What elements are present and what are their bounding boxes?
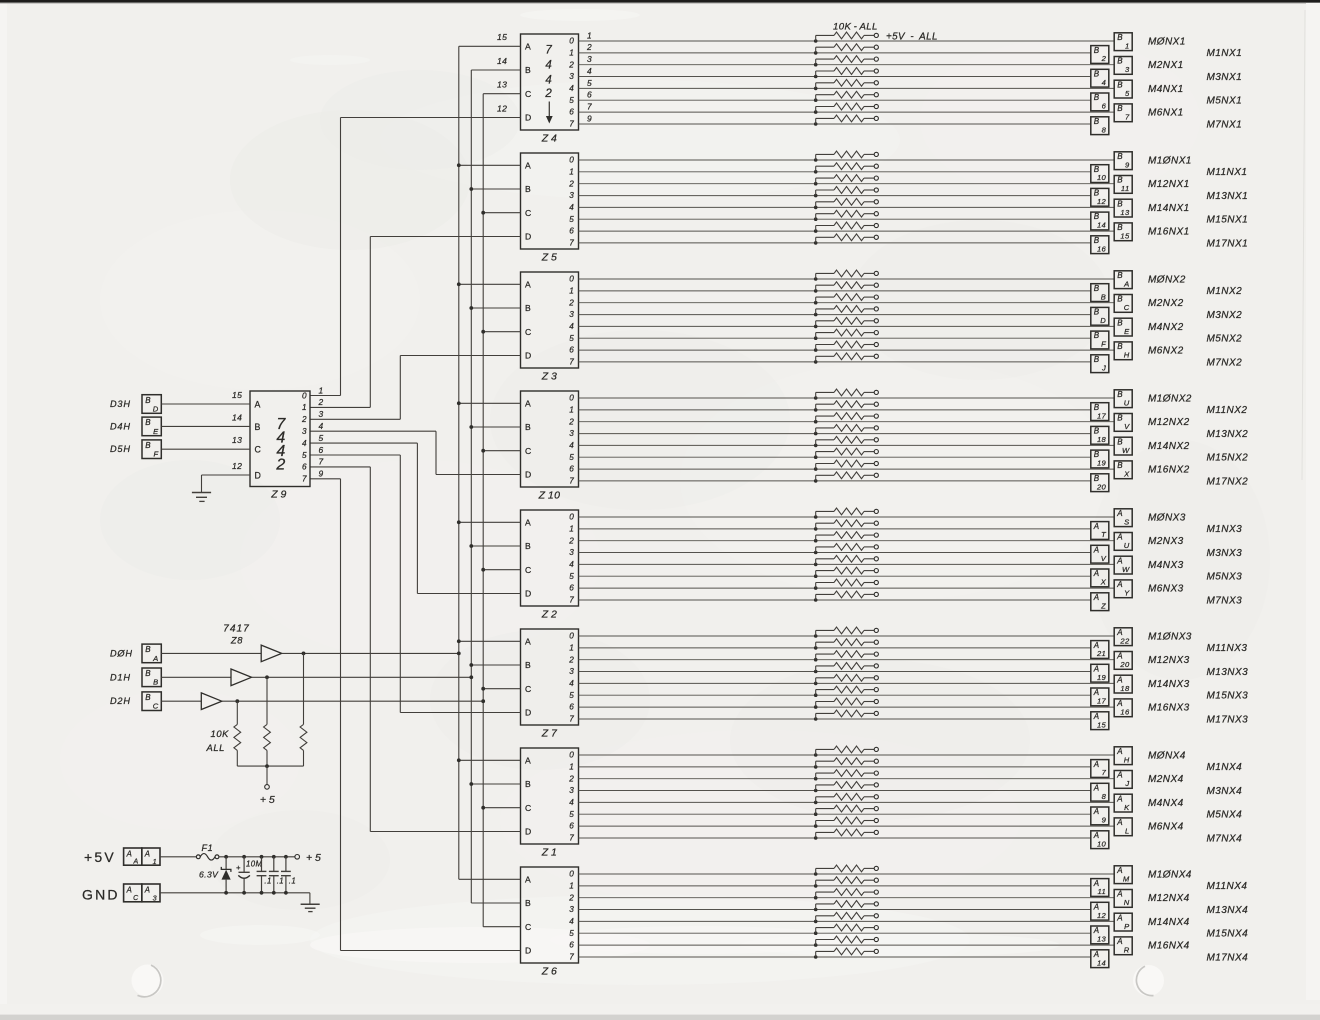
wire Z5 input A stub <box>459 164 521 166</box>
wire Z7 input B stub <box>471 664 520 666</box>
svg-text:20: 20 <box>1119 660 1130 669</box>
svg-text:A: A <box>525 399 531 409</box>
svg-text:M17NX1: M17NX1 <box>1207 238 1249 249</box>
svg-text:M7NX1: M7NX1 <box>1207 119 1243 130</box>
svg-text:7: 7 <box>569 477 574 486</box>
svg-text:6: 6 <box>569 584 574 593</box>
svg-text:M7NX3: M7NX3 <box>1207 595 1243 606</box>
wire Z3 input B stub <box>471 307 520 309</box>
svg-text:M16NX2: M16NX2 <box>1148 465 1190 476</box>
wire Z2 output 0 <box>579 516 1115 518</box>
svg-text:M2NX3: M2NX3 <box>1148 536 1184 547</box>
resistor 10K pull-up (Z2 out 4) <box>816 555 875 564</box>
svg-text:4: 4 <box>569 84 574 93</box>
svg-text:N: N <box>1124 898 1130 907</box>
wire Z9 output 4 to Z2 D (select) <box>310 442 417 444</box>
wire D3H to Z9 <box>161 403 250 405</box>
+5V terminal <box>874 533 878 537</box>
connector pin A9 <box>1091 807 1109 825</box>
junction pull-up <box>235 699 239 703</box>
resistor 10K pull-up (D1H) <box>264 677 271 766</box>
junction bus D0H <box>457 758 461 762</box>
+5V terminal <box>874 319 878 323</box>
svg-text:M3NX3: M3NX3 <box>1207 548 1243 559</box>
wire Z9 output 7 to Z6 D (select) <box>310 478 341 480</box>
svg-text:3: 3 <box>569 310 574 319</box>
resistor 10K pull-up (Z4 out 5) <box>816 91 875 100</box>
junction pull-up tap <box>814 753 818 757</box>
svg-text:1: 1 <box>569 406 574 415</box>
wire Z10 output 2 <box>579 421 1115 423</box>
svg-text:3: 3 <box>587 54 592 64</box>
svg-text:4: 4 <box>569 917 574 926</box>
svg-text:+5V: +5V <box>84 849 116 865</box>
+5V terminal <box>874 33 878 37</box>
chip Z3 (7442 BCD decoder) <box>521 272 579 368</box>
resistor 10K pull-up (Z6 out 7) <box>816 948 875 957</box>
svg-text:9: 9 <box>319 469 324 479</box>
svg-text:22: 22 <box>1119 636 1130 645</box>
svg-text:MØNX2: MØNX2 <box>1148 274 1186 285</box>
svg-text:16: 16 <box>1097 244 1107 253</box>
svg-text:D: D <box>255 470 261 480</box>
junction bus D0H <box>457 401 461 405</box>
svg-text:0: 0 <box>302 391 307 400</box>
svg-text:6: 6 <box>569 465 574 474</box>
svg-text:3: 3 <box>569 667 574 676</box>
connector pin B15 <box>1114 223 1132 241</box>
svg-text:M15NX3: M15NX3 <box>1207 691 1249 702</box>
svg-text:M1ØNX1: M1ØNX1 <box>1148 155 1192 166</box>
+5V terminal <box>874 116 878 120</box>
resistor 10K pull-up (Z1 out 1) <box>816 758 875 767</box>
svg-text:12: 12 <box>1097 911 1107 920</box>
svg-text:9: 9 <box>1102 816 1107 825</box>
connector pin AC / A3 (GND) <box>124 884 160 902</box>
svg-text:GND: GND <box>82 887 120 903</box>
svg-text:3: 3 <box>1125 65 1130 74</box>
connector pin B17 <box>1091 403 1109 421</box>
resistor 10K pull-up (Z3 out 3) <box>816 306 875 315</box>
junction bus D0H <box>457 639 461 643</box>
svg-text:A: A <box>1116 771 1123 780</box>
svg-text:.1: .1 <box>289 877 296 886</box>
junction pull-up tap <box>814 51 818 55</box>
+5V terminal <box>874 818 878 822</box>
resistor 10K pull-up (Z1 out 6) <box>816 817 875 826</box>
junction pull-up tap <box>814 634 818 638</box>
resistor 10K pull-up (Z6 out 2) <box>816 889 875 898</box>
connector pin AZ <box>1091 593 1109 611</box>
svg-text:MØNX1: MØNX1 <box>1148 36 1186 47</box>
connector pin A17 <box>1091 688 1109 706</box>
svg-text:B: B <box>1094 46 1100 55</box>
svg-text:3: 3 <box>569 786 574 795</box>
svg-text:Z 6: Z 6 <box>541 966 558 978</box>
svg-text:3: 3 <box>153 893 157 902</box>
resistor 10K pull-up (Z3 out 2) <box>816 294 875 303</box>
svg-text:B: B <box>1117 80 1123 89</box>
junction pull-up tap <box>814 884 818 888</box>
svg-text:DØH: DØH <box>110 648 133 658</box>
junction bus <box>481 699 485 703</box>
svg-text:A: A <box>1116 533 1123 542</box>
svg-text:M1ØNX3: M1ØNX3 <box>1148 631 1192 642</box>
svg-text:C: C <box>525 89 531 99</box>
svg-text:5: 5 <box>302 451 307 460</box>
junction <box>224 855 228 859</box>
junction <box>272 855 276 859</box>
wire Z3 output 2 <box>579 302 1115 304</box>
connector pin B16 <box>1091 236 1109 254</box>
svg-text:2: 2 <box>568 179 574 188</box>
svg-text:D: D <box>525 470 531 480</box>
svg-text:18: 18 <box>1120 684 1130 693</box>
svg-text:M7NX2: M7NX2 <box>1207 357 1243 368</box>
svg-text:ALL: ALL <box>206 742 225 753</box>
connector pin B14 <box>1091 212 1109 230</box>
svg-text:B: B <box>525 422 531 432</box>
fuse F1 <box>196 854 219 861</box>
chip Z9 (7442 BCD decoder) <box>250 391 310 487</box>
svg-text:8: 8 <box>1102 792 1107 801</box>
wire Z3 input A stub <box>459 283 521 285</box>
svg-text:3: 3 <box>569 191 574 200</box>
wire pull-up common rail <box>237 765 303 767</box>
svg-text:H: H <box>1124 755 1130 764</box>
punch hole right <box>1133 965 1164 996</box>
svg-text:A: A <box>126 850 133 859</box>
paper right edge <box>1306 3 1320 1000</box>
scanner bottom edge <box>0 1004 1320 1020</box>
connector pin AR <box>1114 937 1132 955</box>
svg-text:B: B <box>1117 57 1123 66</box>
svg-text:Z 10: Z 10 <box>538 490 561 502</box>
wire Z9 output 2 to Z3 D (select) <box>310 418 400 420</box>
svg-text:A: A <box>1116 937 1123 946</box>
connector pin B6 <box>1091 93 1109 111</box>
wire Z4 output 3 <box>579 76 1091 78</box>
resistor 10K pull-up (Z4 out 7) <box>816 115 875 124</box>
svg-text:W: W <box>1122 446 1130 455</box>
resistor 10K pull-up (Z5 out 6) <box>816 222 875 231</box>
+5V terminal <box>874 438 878 442</box>
+5V terminal <box>874 557 878 561</box>
svg-text:M: M <box>1123 874 1130 883</box>
resistor 10K pull-up (Z10 out 0) <box>816 389 875 398</box>
connector pin AA / A1 (+5V) <box>124 848 160 866</box>
svg-text:F: F <box>1101 340 1106 349</box>
resistor 10K pull-up (Z4 out 1) <box>816 44 875 53</box>
connector pin AP <box>1114 913 1132 931</box>
+5V terminal <box>874 664 878 668</box>
svg-text:B: B <box>145 441 151 450</box>
svg-text:13: 13 <box>497 80 507 90</box>
svg-text:A: A <box>1093 546 1100 555</box>
+5V terminal <box>874 914 878 918</box>
svg-text:Z 5: Z 5 <box>541 252 558 264</box>
svg-text:+ 5: + 5 <box>306 852 321 864</box>
svg-text:7: 7 <box>569 953 574 962</box>
junction <box>260 891 264 895</box>
connector pin AT <box>1091 522 1109 540</box>
junction pull-up tap <box>814 360 818 364</box>
wire Z3 output 3 <box>579 314 1091 316</box>
connector pin A11 <box>1091 879 1109 897</box>
wire Z10 input C stub <box>483 450 520 452</box>
connector pin A10 <box>1091 831 1109 849</box>
svg-text:9: 9 <box>587 113 592 123</box>
svg-text:M17NX3: M17NX3 <box>1207 714 1249 725</box>
wire Z9 D input to ground <box>202 474 251 476</box>
svg-text:C: C <box>525 446 531 456</box>
connector pin BA (DØH) <box>142 644 161 663</box>
junction pull-up tap <box>814 586 818 590</box>
resistor 10K pull-up (Z1 out 3) <box>816 782 875 791</box>
junction bus D1H <box>469 306 473 310</box>
svg-text:10K: 10K <box>211 728 230 739</box>
connector pin BH <box>1114 342 1132 360</box>
+5V terminal <box>874 783 878 787</box>
+5V terminal <box>874 592 878 596</box>
svg-text:6: 6 <box>569 822 574 831</box>
connector pin AV <box>1091 545 1109 563</box>
svg-text:D1H: D1H <box>110 672 131 682</box>
svg-text:1: 1 <box>1125 41 1130 50</box>
svg-text:V: V <box>1124 422 1130 431</box>
resistor 10K pull-up (Z5 out 3) <box>816 187 875 196</box>
svg-text:M6NX1: M6NX1 <box>1148 108 1184 119</box>
wire Z5 output 0 <box>579 159 1115 161</box>
svg-text:L: L <box>1125 827 1130 836</box>
svg-text:+: + <box>236 863 241 872</box>
svg-text:M13NX4: M13NX4 <box>1207 905 1249 916</box>
connector pin BB (D1H) <box>142 668 161 687</box>
svg-text:A: A <box>525 280 531 290</box>
svg-text:S: S <box>1124 517 1129 526</box>
svg-text:A: A <box>1123 279 1129 288</box>
junction pull-up tap <box>814 194 818 198</box>
wire Z4 output 1 <box>579 52 1091 54</box>
svg-text:0: 0 <box>569 394 574 403</box>
chip Z6 (7442 BCD decoder) <box>521 867 579 963</box>
wire Z6 input A stub <box>459 878 521 880</box>
svg-text:1: 1 <box>569 167 574 176</box>
junction pull-up tap <box>814 158 818 162</box>
svg-text:B: B <box>525 541 531 551</box>
+5V terminal <box>874 200 878 204</box>
resistor 10K pull-up (Z5 out 2) <box>816 175 875 184</box>
junction bus <box>457 652 461 656</box>
wire Z6 output 7 <box>579 956 1091 958</box>
connector pin A8 <box>1091 783 1109 801</box>
wire Z7 output 7 <box>579 718 1091 720</box>
junction pull-up tap <box>814 63 818 67</box>
svg-text:5: 5 <box>587 78 592 88</box>
svg-text:2: 2 <box>318 397 324 407</box>
wire Z6 input C stub <box>483 926 520 928</box>
connector pin A7 <box>1091 760 1109 778</box>
+5V terminal <box>874 390 878 394</box>
svg-text:3: 3 <box>319 409 324 419</box>
svg-text:M1NX4: M1NX4 <box>1207 762 1243 773</box>
wire Z1 output 3 <box>579 790 1091 792</box>
svg-text:1: 1 <box>569 644 574 653</box>
svg-text:B: B <box>1094 93 1100 102</box>
+5V terminal <box>874 426 878 430</box>
connector pin BD <box>1091 307 1109 325</box>
junction <box>242 855 246 859</box>
wire buffer output to bus <box>252 676 472 678</box>
svg-text:C: C <box>525 922 531 932</box>
connector pin AK <box>1114 794 1132 812</box>
wire Z6 output 3 <box>579 909 1091 911</box>
+5V terminal <box>874 223 878 227</box>
svg-text:M12NX4: M12NX4 <box>1148 893 1190 904</box>
svg-text:18: 18 <box>1097 435 1107 444</box>
+5V terminal <box>874 676 878 680</box>
connector pin BB <box>1091 284 1109 302</box>
junction pull-up tap <box>814 551 818 555</box>
connector pin A22 <box>1114 628 1132 646</box>
svg-text:13: 13 <box>232 435 242 445</box>
wire Z10 output 4 <box>579 444 1115 446</box>
connector pin A13 <box>1091 926 1109 944</box>
wire Z4 output 5 <box>579 99 1091 101</box>
wire Z3 input C stub <box>483 331 520 333</box>
connector pin BF (D5H) <box>142 440 161 459</box>
svg-text:1: 1 <box>569 525 574 534</box>
svg-text:B: B <box>255 422 261 432</box>
svg-text:7: 7 <box>569 120 574 129</box>
connector pin A19 <box>1091 664 1109 682</box>
svg-text:M6NX2: M6NX2 <box>1148 346 1184 357</box>
junction pull-up tap <box>814 301 818 305</box>
resistor 10K pull-up (Z7 out 1) <box>816 639 875 648</box>
svg-text:A: A <box>1116 580 1123 589</box>
resistor 10K pull-up (D2H) <box>234 701 241 766</box>
svg-text:5: 5 <box>569 572 574 581</box>
svg-text:2: 2 <box>568 298 574 307</box>
svg-text:16: 16 <box>1120 708 1130 717</box>
svg-text:MØNX3: MØNX3 <box>1148 512 1186 523</box>
wire Z2 output 1 <box>579 528 1091 530</box>
svg-text:17: 17 <box>1097 411 1107 420</box>
svg-text:B: B <box>1094 70 1100 79</box>
resistor 10K pull-up (Z7 out 3) <box>816 663 875 672</box>
svg-text:P: P <box>1124 922 1130 931</box>
+5V terminal <box>874 57 878 61</box>
wire GND drop to earth <box>309 893 311 904</box>
wire Z7 output 1 <box>579 647 1091 649</box>
junction pull-up tap <box>814 75 818 79</box>
svg-text:15: 15 <box>1120 232 1130 241</box>
junction pull-up tap <box>814 789 818 793</box>
svg-text:2: 2 <box>568 774 574 783</box>
junction bus D2H <box>481 568 485 572</box>
junction pull-up tap <box>814 217 818 221</box>
svg-text:7417: 7417 <box>223 624 250 635</box>
resistor 10K pull-up (Z10 out 5) <box>816 448 875 457</box>
junction pull-up tap <box>814 313 818 317</box>
junction <box>272 891 276 895</box>
svg-text:J: J <box>1101 363 1106 372</box>
svg-text:12: 12 <box>497 103 507 113</box>
junction pull-up tap <box>814 396 818 400</box>
svg-text:D: D <box>525 946 531 956</box>
svg-text:A: A <box>1093 522 1100 531</box>
buffer 7417 (D1H) <box>231 669 252 686</box>
svg-text:M4NX4: M4NX4 <box>1148 798 1184 809</box>
svg-text:B: B <box>1117 152 1123 161</box>
junction pull-up tap <box>814 229 818 233</box>
wire Z4 input B stub <box>471 69 520 71</box>
resistor 10K pull-up (Z5 out 1) <box>816 163 875 172</box>
svg-text:F: F <box>154 450 159 459</box>
svg-text:+ 5: + 5 <box>260 794 275 806</box>
wire Z2 input A stub <box>459 521 521 523</box>
+5 terminal <box>295 855 300 860</box>
svg-text:2: 2 <box>568 536 574 545</box>
resistor 10K pull-up (Z6 out 6) <box>816 936 875 945</box>
junction bus D2H <box>481 687 485 691</box>
svg-text:.1: .1 <box>264 877 271 886</box>
junction pull-up tap <box>814 824 818 828</box>
wire Z4 output 0 <box>579 40 1115 42</box>
wire Z3 output 5 <box>579 337 1091 339</box>
svg-text:2: 2 <box>544 88 552 100</box>
resistor 10K pull-up (Z4 out 4) <box>816 79 875 88</box>
svg-text:1: 1 <box>302 403 307 412</box>
connector pin BE <box>1114 318 1132 336</box>
junction bus D1H <box>469 663 473 667</box>
chip Z4 (7442 BCD decoder) <box>521 34 579 130</box>
svg-text:MØNX4: MØNX4 <box>1148 750 1186 761</box>
junction bus D0H <box>457 163 461 167</box>
svg-text:10M: 10M <box>246 860 262 869</box>
svg-text:Z: Z <box>1100 601 1106 610</box>
+5V terminal <box>874 271 878 275</box>
connector pin BW <box>1114 437 1132 455</box>
svg-text:B: B <box>1094 355 1100 364</box>
junction bus D1H <box>469 782 473 786</box>
svg-text:11: 11 <box>1121 184 1130 193</box>
+5V terminal <box>874 93 878 97</box>
svg-text:C: C <box>133 895 139 902</box>
svg-text:B: B <box>153 678 158 687</box>
connector pin B11 <box>1114 176 1132 194</box>
wire Z1 output 1 <box>579 766 1091 768</box>
wire Z4 output 4 <box>579 87 1115 89</box>
chip Z5 (7442 BCD decoder) <box>521 153 579 249</box>
+5V terminal <box>874 509 878 513</box>
wire Z6 output 5 <box>579 932 1091 934</box>
svg-text:A: A <box>144 886 151 895</box>
svg-text:M16NX3: M16NX3 <box>1148 703 1190 714</box>
wire Z7 output 6 <box>579 706 1115 708</box>
connector pin B4 <box>1091 69 1109 87</box>
resistor 10K pull-up (Z10 out 7) <box>816 472 875 481</box>
connector pin A12 <box>1091 902 1109 920</box>
svg-text:6: 6 <box>569 941 574 950</box>
svg-text:5: 5 <box>569 453 574 462</box>
+5 terminal <box>265 785 270 790</box>
svg-text:B: B <box>1094 284 1100 293</box>
svg-text:15: 15 <box>232 390 242 400</box>
connector pin BX <box>1114 461 1132 479</box>
+5V terminal <box>874 354 878 358</box>
connector pin B1 <box>1114 33 1132 51</box>
